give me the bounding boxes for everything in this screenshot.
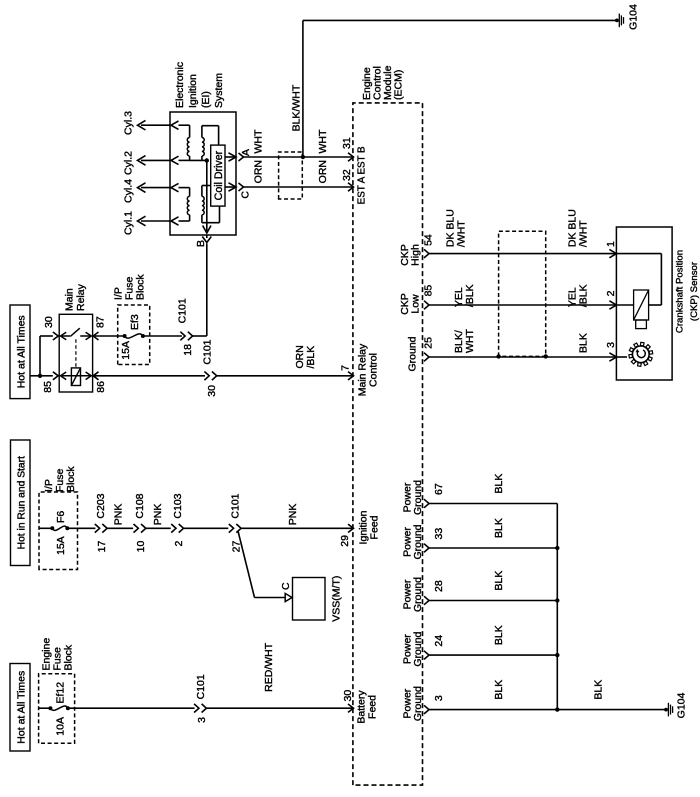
relay contact blade: [70, 328, 80, 336]
svg-text:A: A: [240, 149, 252, 156]
ignition coil primary (right): [201, 156, 203, 161]
svg-text:F6: F6: [55, 511, 67, 523]
junction node shield bottom: [544, 354, 548, 358]
junction node feed3: [38, 374, 42, 378]
pin 85 CKP Low arrow: [424, 301, 429, 310]
wire feed1 fuse to connector C101: [68, 707, 195, 709]
svg-text:Electronic: Electronic: [174, 62, 186, 108]
svg-text:Ground: Ground: [407, 336, 419, 371]
wire A ORN/WHT to ECM pin 31 EST B: [244, 156, 354, 158]
relay coil branch 85-86 with arrows: [61, 375, 92, 377]
reluctor gear symbol: [616, 356, 627, 358]
svg-text:Cyl.4: Cyl.4: [123, 179, 135, 203]
ground G104 (top right): [615, 19, 619, 23]
relay coil symbol: [71, 368, 80, 386]
svg-text:Cyl.1: Cyl.1: [123, 211, 135, 235]
pin 54 CKP High arrow: [424, 249, 429, 258]
svg-text:Block: Block: [135, 274, 147, 300]
svg-text:(CKP) Sensor: (CKP) Sensor: [689, 261, 700, 321]
connector 30 C101 on relay control wire: [204, 372, 209, 381]
svg-text:/BLK: /BLK: [578, 284, 590, 307]
wire YEL/BLK CKP Low to sensor pin 2: [429, 304, 616, 306]
svg-text:BLK/WHT: BLK/WHT: [291, 84, 303, 131]
Cyl.1 arrow inside EI box: [171, 217, 179, 225]
I/P Fuse Block (dashed) for Ef3: [118, 305, 150, 365]
Electronic Ignition System box: [170, 112, 236, 235]
svg-text:3: 3: [605, 342, 617, 348]
svg-text:10: 10: [135, 541, 147, 553]
junction nodes on ground bus: [555, 546, 559, 550]
pin 67 Power Ground: [424, 499, 429, 508]
svg-text:VSS(M/T): VSS(M/T): [331, 576, 343, 622]
svg-text:Coil Driver: Coil Driver: [213, 150, 225, 200]
Cyl.4 arrow inside EI box: [171, 183, 179, 191]
pin 32 arrow EST A: [348, 183, 354, 191]
svg-text:Hot at All Times: Hot at All Times: [16, 671, 28, 744]
svg-text:Ground: Ground: [412, 686, 424, 721]
connector 18 C101: [180, 332, 185, 341]
wire feed2 from fuse block edge to fuse: [39, 527, 52, 529]
svg-text:ORN: ORN: [253, 160, 265, 183]
relay mechanical link (dashed): [75, 337, 77, 367]
svg-text:17: 17: [96, 541, 108, 553]
CKP pickup coil symbol: [634, 290, 649, 320]
svg-text:BLK: BLK: [578, 333, 590, 353]
svg-text:Ground: Ground: [412, 524, 424, 559]
fuse F6 15A: [50, 526, 54, 530]
svg-text:29: 29: [339, 535, 351, 547]
connector 2 C103: [171, 524, 176, 533]
pin 31 arrow EST B: [348, 153, 354, 161]
svg-text:Ground: Ground: [412, 631, 424, 666]
power source box: Hot at All Times (relay feed): [10, 305, 30, 399]
svg-text:87: 87: [95, 316, 107, 328]
connector 10 C108: [134, 524, 139, 533]
wire Cyl.4 spark output: [141, 187, 170, 189]
svg-text:Cyl.3: Cyl.3: [123, 111, 135, 135]
svg-text:BLK: BLK: [493, 474, 505, 494]
CKP sensor internal wiring: [616, 253, 661, 255]
svg-text:WHT: WHT: [317, 129, 329, 153]
relay pin 86 terminal chevron: [93, 372, 98, 380]
svg-text:31: 31: [341, 137, 353, 149]
svg-text:C101: C101: [177, 298, 189, 323]
svg-text:PNK: PNK: [287, 504, 299, 526]
svg-text:Block: Block: [65, 466, 77, 492]
svg-text:(EI): (EI): [200, 91, 212, 108]
wire junction to relay pin 85: [40, 375, 53, 377]
svg-text:Block: Block: [63, 644, 75, 670]
svg-text:B: B: [195, 240, 207, 247]
svg-text:Hot at All Times: Hot at All Times: [16, 315, 28, 388]
svg-text:85: 85: [423, 285, 435, 297]
EST shield box (dashed): [279, 152, 303, 199]
svg-text:/WHT: /WHT: [578, 220, 590, 247]
Main Relay box: [59, 314, 92, 392]
branch wire to VSS: [238, 531, 255, 598]
pin 24 Power Ground: [424, 651, 429, 660]
junction node B feed: [205, 158, 209, 162]
svg-text:WHT: WHT: [464, 329, 476, 353]
wire feed2 to C203: [67, 527, 95, 529]
svg-text:C103: C103: [172, 493, 184, 518]
ignition coil secondary (Cyl.2-Cyl.3): [179, 159, 190, 161]
pin 25 Ground arrow: [424, 353, 429, 362]
svg-text:/BLK: /BLK: [305, 346, 317, 369]
wire junction to relay pin 30: [39, 336, 41, 376]
svg-text:/WHT: /WHT: [456, 220, 468, 247]
svg-text:System: System: [213, 73, 225, 108]
Engine Fuse Block (dashed): [39, 674, 75, 744]
ground G104 (bottom left): [664, 708, 668, 712]
svg-text:30: 30: [43, 316, 55, 328]
ground bus wire: [556, 504, 558, 710]
svg-text:15A: 15A: [120, 341, 132, 360]
relay pin 30 terminal chevron: [53, 332, 58, 340]
svg-text:18: 18: [182, 344, 194, 356]
svg-text:BLK: BLK: [493, 625, 505, 645]
CKP shield box (dashed): [499, 231, 546, 356]
svg-text:2: 2: [605, 290, 617, 296]
pin 3 Power Ground: [424, 705, 429, 714]
wire feed1 from fuse block edge to fuse: [39, 707, 51, 709]
Crankshaft Position (CKP) Sensor box: [616, 227, 672, 380]
svg-text:32: 32: [341, 169, 353, 181]
svg-text:Crankshaft Position: Crankshaft Position: [675, 250, 686, 333]
svg-text:25: 25: [423, 337, 435, 349]
svg-text:Feed: Feed: [366, 695, 378, 719]
VSS(M/T) box: [293, 578, 326, 621]
svg-text:30: 30: [206, 385, 218, 397]
fuse Ef12 10A: [48, 706, 52, 710]
junction node shield ground: [301, 155, 305, 159]
wire RED/WHT to ECM pin 30: [206, 707, 353, 709]
svg-text:PNK: PNK: [113, 504, 125, 526]
svg-text:C203: C203: [95, 493, 107, 518]
svg-text:C: C: [240, 191, 252, 199]
power source box: Hot at All Times (battery feed): [10, 664, 30, 752]
svg-text:BLK: BLK: [493, 518, 505, 538]
svg-text:15A: 15A: [55, 536, 67, 555]
pin 7 Main Relay Control arrow: [348, 372, 354, 380]
svg-text:3: 3: [433, 695, 445, 701]
Engine Control Module (ECM) box dashed: [353, 103, 423, 785]
relay pin 87 terminal chevron: [93, 332, 98, 340]
svg-text:Ef12: Ef12: [55, 682, 67, 704]
pin 33 Power Ground: [424, 544, 429, 553]
connector 17 C203: [95, 524, 100, 533]
wire C ORN/WHT to ECM pin 32 EST A: [244, 186, 354, 188]
svg-text:/BLK: /BLK: [464, 284, 476, 307]
B feed wire inside EI box: [206, 161, 208, 232]
svg-text:54: 54: [423, 234, 435, 246]
wire PNK to C108: [106, 527, 133, 529]
wire Cyl.2 down to B junction: [190, 159, 207, 161]
svg-text:BLK: BLK: [493, 571, 505, 591]
svg-text:ORN: ORN: [317, 160, 329, 183]
svg-text:Ignition: Ignition: [187, 74, 199, 108]
svg-text:C: C: [280, 582, 292, 590]
connector chevron on C wire: [239, 183, 244, 191]
svg-text:(ECM): (ECM): [393, 70, 405, 100]
wire pin 87 to fuse Ef3: [93, 335, 125, 337]
svg-text:G104: G104: [628, 4, 640, 30]
terminal C wire from Coil Driver: [225, 186, 236, 188]
fuse Ef3 15A: [123, 334, 127, 338]
svg-text:Ground: Ground: [412, 480, 424, 515]
svg-text:C101: C101: [195, 674, 207, 699]
wire Cyl.2 spark output: [141, 159, 170, 161]
svg-text:C108: C108: [134, 493, 146, 518]
svg-text:3: 3: [196, 717, 208, 723]
relay pin 85 terminal chevron: [53, 372, 58, 380]
wire to EI system terminal B: [192, 335, 207, 337]
svg-text:EST A EST B: EST A EST B: [357, 146, 368, 204]
svg-text:Hot in Run and Start: Hot in Run and Start: [17, 456, 28, 549]
svg-text:33: 33: [433, 528, 445, 540]
svg-text:Cyl.2: Cyl.2: [123, 151, 135, 175]
svg-text:BLK: BLK: [593, 680, 605, 700]
svg-text:Main: Main: [64, 288, 76, 311]
connector chevron on A wire: [239, 153, 244, 161]
VSS terminal C arrow: [285, 593, 292, 601]
svg-text:PNK: PNK: [152, 504, 164, 526]
svg-text:10A: 10A: [55, 717, 67, 736]
terminal A wire from Coil Driver: [225, 156, 236, 158]
svg-text:Feed: Feed: [368, 515, 380, 539]
svg-text:24: 24: [433, 635, 445, 647]
svg-text:BLK: BLK: [493, 680, 505, 700]
wire feed3 down to junction: [30, 375, 40, 377]
Cyl.2 arrow inside EI box: [171, 156, 179, 164]
svg-text:Relay: Relay: [75, 283, 87, 311]
svg-text:Low: Low: [410, 294, 422, 314]
CKP sensor pin arrows: [609, 249, 616, 257]
svg-text:Control: Control: [367, 353, 379, 387]
power source box: Hot in Run and Start: [11, 440, 31, 566]
svg-text:G104: G104: [676, 692, 688, 718]
ignition coil primary (left): [201, 215, 203, 223]
wire BLK bus to G104: [557, 709, 665, 711]
svg-text:WHT: WHT: [253, 129, 265, 153]
svg-text:C101: C101: [230, 493, 242, 518]
wire Cyl.1 spark output: [141, 220, 170, 222]
wire pin 86 ORN/BLK to ECM pin 7: [93, 375, 205, 377]
connector chevron on B wire: [202, 237, 211, 243]
wire BLK/WHT to G104: [302, 20, 304, 157]
svg-text:Ground: Ground: [412, 577, 424, 612]
wire PNK to C103: [146, 527, 171, 529]
wire PNK to ECM pin 29: [240, 527, 353, 529]
relay contact branch 30-87 with arrows: [61, 335, 71, 337]
wire to C101: [184, 527, 229, 529]
svg-text:Ef3: Ef3: [129, 314, 141, 330]
svg-text:High: High: [410, 244, 422, 266]
Cyl.3 arrow inside EI box: [171, 121, 179, 129]
svg-text:28: 28: [433, 580, 445, 592]
wire Cyl.3 spark output: [141, 124, 170, 126]
Coil Driver box: [211, 145, 225, 206]
pin 30 Battery Feed arrow: [348, 704, 354, 712]
I/P Fuse Block (dashed) for F6: [39, 492, 78, 570]
wire fuse to connector 18 C101: [143, 335, 182, 337]
ignition coil secondary (Cyl.1-Cyl.4): [179, 220, 190, 222]
svg-text:67: 67: [433, 483, 445, 495]
svg-text:C101: C101: [202, 339, 214, 364]
pin 29 Ignition Feed arrow: [348, 524, 354, 532]
connector 3 C101: [194, 704, 199, 713]
svg-text:85: 85: [42, 381, 54, 393]
wire DK BLU/WHT CKP High to sensor pin 1: [429, 253, 616, 255]
svg-text:RED/WHT: RED/WHT: [263, 642, 275, 692]
pin 28 Power Ground: [424, 596, 429, 605]
svg-text:1: 1: [605, 241, 617, 247]
svg-text:2: 2: [173, 541, 185, 547]
svg-text:7: 7: [340, 365, 352, 371]
svg-text:86: 86: [95, 381, 107, 393]
wire BLK/WHT ground to sensor pin 3: [429, 356, 616, 358]
connector 27 C101: [229, 524, 234, 533]
junction node shield top: [496, 354, 500, 358]
